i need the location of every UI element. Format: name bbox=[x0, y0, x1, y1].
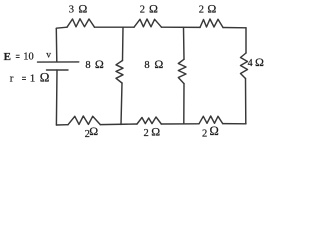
svg-text:8: 8 bbox=[144, 60, 149, 71]
wire: top rail segment between R2 and R3 bbox=[162, 26, 201, 28]
svg-text:r: r bbox=[10, 72, 14, 84]
wire: right rail upper segment bbox=[245, 28, 247, 53]
wire: right rail lower segment bbox=[245, 79, 247, 124]
wire: middle branch 2 upper (top rail to R9) bbox=[183, 27, 186, 59]
svg-text:3: 3 bbox=[69, 4, 74, 15]
wire: bottom rail segment between R5 and R6 bbox=[161, 123, 199, 125]
label "E = 10 v" for battery bbox=[4, 51, 52, 63]
wire: top rail segment between R1 and R2 bbox=[95, 26, 135, 28]
label "4 Ω" for R7 bbox=[248, 55, 264, 69]
resistor R1 3Ω (top left) bbox=[67, 19, 95, 27]
svg-text:8: 8 bbox=[85, 60, 90, 71]
svg-text:1: 1 bbox=[30, 72, 36, 84]
svg-text:E: E bbox=[4, 51, 11, 63]
svg-text:Ω: Ω bbox=[255, 55, 264, 69]
svg-text:4: 4 bbox=[248, 58, 253, 69]
wire: middle branch 1 upper (top rail to R8) bbox=[122, 27, 125, 60]
svg-text:Ω: Ω bbox=[95, 57, 104, 71]
resistor R8 8Ω (first vertical) bbox=[116, 61, 123, 84]
svg-text:2: 2 bbox=[144, 128, 149, 139]
label "2 Ω" for R4 bbox=[85, 124, 99, 140]
label "2 Ω" for R5 bbox=[144, 124, 161, 139]
svg-text:2: 2 bbox=[202, 128, 207, 139]
resistor R6 2Ω (bottom right) bbox=[199, 116, 223, 124]
label "3 Ω" for R1 bbox=[69, 1, 88, 15]
wire: left branch upper (node A to battery) bbox=[55, 29, 58, 62]
wire: middle branch 2 lower (R9 to bottom rail) bbox=[183, 84, 185, 124]
label "2 Ω" for R2 bbox=[140, 1, 158, 15]
svg-text:Ω: Ω bbox=[154, 57, 163, 71]
resistor R9 8Ω (second vertical) bbox=[178, 59, 186, 83]
resistor R3 2Ω (top right) bbox=[200, 19, 223, 28]
wire: bottom rail segment between R4 and R5 bbox=[100, 123, 137, 126]
label "2 Ω" for R3 bbox=[199, 1, 217, 15]
svg-text:2: 2 bbox=[140, 4, 145, 15]
label "8 Ω" for R9 bbox=[144, 57, 163, 71]
svg-text:v: v bbox=[46, 51, 51, 61]
wire: left branch lower (battery to bottom rail) bbox=[55, 70, 58, 125]
battery E (cell plates) bbox=[38, 62, 79, 70]
svg-text:Ω: Ω bbox=[78, 1, 87, 15]
resistor R5 2Ω (bottom middle) bbox=[137, 117, 161, 124]
resistor R4 2Ω (bottom left) bbox=[68, 116, 100, 125]
resistor R2 2Ω (top middle) bbox=[134, 19, 162, 27]
svg-text:Ω: Ω bbox=[151, 124, 160, 138]
svg-text:Ω: Ω bbox=[89, 124, 98, 138]
label "8 Ω" for R8 bbox=[85, 57, 104, 71]
svg-text:2: 2 bbox=[199, 4, 204, 15]
wire: middle branch 1 lower (R8 to bottom rail) bbox=[121, 83, 122, 125]
wire: top rail right segment to corner bbox=[223, 27, 246, 29]
label "2 Ω" for R6 bbox=[202, 124, 219, 139]
resistor R7 4Ω (right vertical) bbox=[241, 53, 248, 79]
svg-text:Ω: Ω bbox=[210, 124, 219, 138]
svg-text:Ω: Ω bbox=[207, 1, 216, 15]
svg-text:10: 10 bbox=[23, 52, 34, 63]
svg-text:Ω: Ω bbox=[149, 1, 158, 15]
label "r = 1 Ω" for internal resistance bbox=[10, 70, 50, 85]
svg-text:Ω: Ω bbox=[40, 70, 50, 85]
wire: bottom rail left segment bbox=[56, 124, 68, 126]
wire: top rail left segment bbox=[56, 27, 67, 28]
wire: bottom rail right segment to corner bbox=[223, 123, 246, 125]
